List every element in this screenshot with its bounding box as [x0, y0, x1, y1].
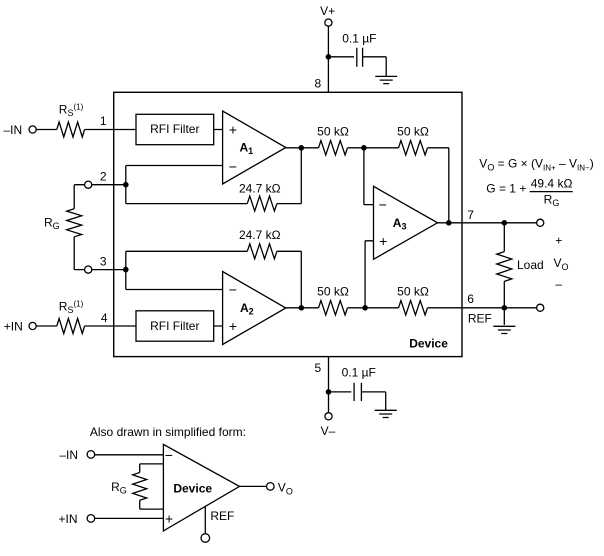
svg-text:–IN: –IN: [59, 448, 78, 462]
svg-text:6: 6: [467, 292, 474, 306]
svg-text:−: −: [379, 196, 387, 212]
svg-text:+: +: [229, 121, 237, 137]
svg-text:+: +: [229, 318, 237, 334]
svg-text:RFI Filter: RFI Filter: [150, 319, 199, 333]
svg-text:50 kΩ: 50 kΩ: [397, 284, 429, 298]
svg-text:V+: V+: [320, 4, 335, 18]
svg-text:REF: REF: [468, 312, 492, 326]
svg-text:50 kΩ: 50 kΩ: [317, 284, 349, 298]
svg-text:G = 1 +: G = 1 +: [486, 182, 526, 196]
svg-text:+: +: [165, 511, 173, 527]
svg-text:+: +: [555, 234, 562, 248]
svg-text:24.7 kΩ: 24.7 kΩ: [239, 182, 281, 196]
svg-text:RFI Filter: RFI Filter: [150, 122, 199, 136]
svg-text:24.7 kΩ: 24.7 kΩ: [239, 228, 281, 242]
svg-text:V–: V–: [321, 424, 336, 438]
svg-text:2: 2: [100, 169, 107, 183]
svg-text:VO = G × (VIN+ – VIN−): VO = G × (VIN+ – VIN−): [479, 157, 593, 173]
svg-text:7: 7: [467, 208, 474, 222]
svg-text:−: −: [165, 447, 173, 463]
svg-text:0.1 µF: 0.1 µF: [342, 31, 376, 45]
svg-text:50 kΩ: 50 kΩ: [397, 124, 429, 138]
svg-text:–IN: –IN: [4, 123, 23, 137]
svg-text:Device: Device: [409, 336, 448, 350]
svg-text:−: −: [229, 281, 237, 297]
svg-text:Load: Load: [517, 258, 544, 272]
svg-text:Also drawn in simplified form:: Also drawn in simplified form:: [90, 425, 246, 439]
svg-text:8: 8: [315, 76, 322, 90]
svg-text:+IN: +IN: [4, 319, 23, 333]
svg-text:3: 3: [100, 254, 107, 268]
svg-text:4: 4: [101, 311, 108, 325]
svg-text:+IN: +IN: [58, 512, 77, 526]
svg-text:+: +: [379, 233, 387, 249]
svg-text:49.4 kΩ: 49.4 kΩ: [531, 176, 573, 190]
svg-text:0.1 µF: 0.1 µF: [342, 366, 376, 380]
svg-text:−: −: [229, 159, 237, 175]
svg-text:REF: REF: [210, 509, 234, 523]
svg-text:Device: Device: [173, 482, 212, 496]
svg-text:50 kΩ: 50 kΩ: [317, 124, 349, 138]
svg-text:5: 5: [315, 361, 322, 375]
svg-text:–: –: [555, 277, 562, 291]
svg-text:1: 1: [100, 114, 107, 128]
